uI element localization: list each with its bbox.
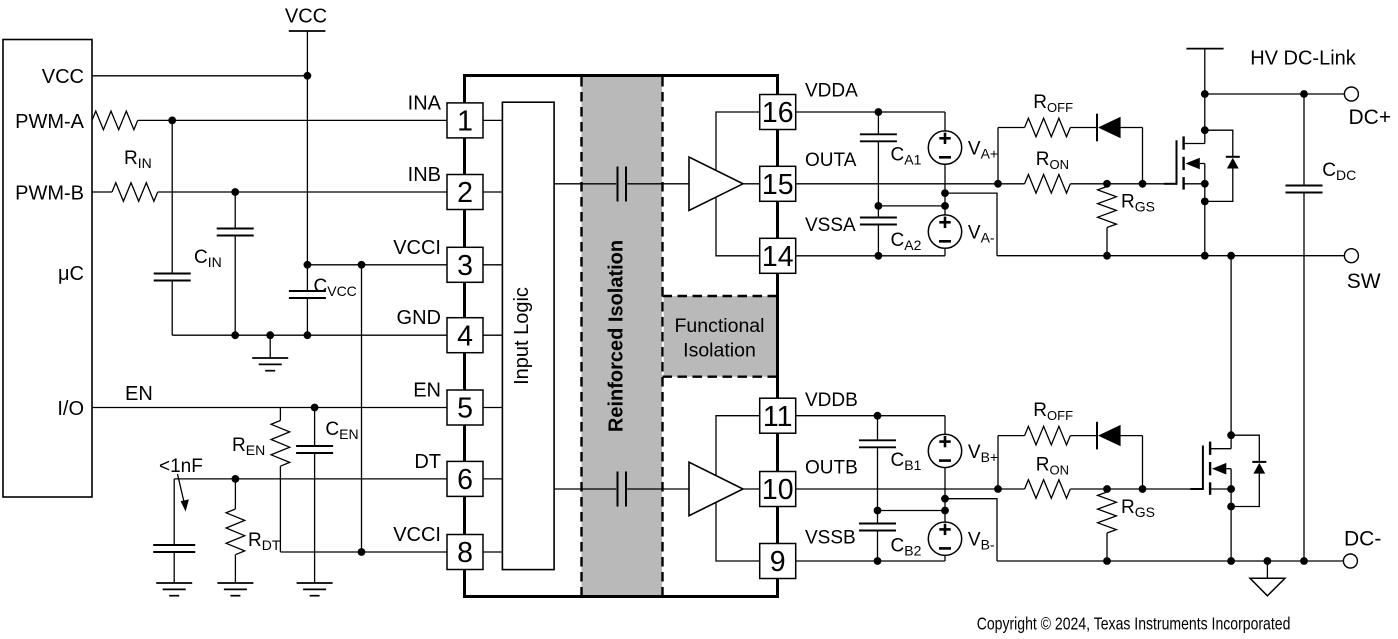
svg-text:CA1: CA1 (891, 145, 922, 168)
junction GND rail (231, 331, 239, 339)
junction VCCI pin8 rail (358, 548, 366, 556)
svg-text:OUTA: OUTA (805, 150, 857, 171)
wire VDDB stub to buffer B (716, 416, 760, 476)
svg-text:VB+: VB+ (968, 442, 998, 465)
diode D_OFF (B) (1096, 422, 1098, 450)
pin box 8 (447, 535, 483, 570)
arrow to DT cap (178, 474, 185, 502)
svg-text:RGS: RGS (1121, 497, 1155, 520)
junction VSSB at C_B2 (874, 557, 882, 565)
svg-text:15: 15 (762, 169, 794, 201)
resistor R_ON (B) (1025, 480, 1071, 499)
wire VDDA stub to buffer A (716, 112, 760, 170)
wire pin stub to input logic (483, 334, 502, 336)
svg-text:<1nF: <1nF (159, 456, 203, 477)
svg-text:Copyright © 2024, Texas Instru: Copyright © 2024, Texas Instruments Inco… (977, 613, 1291, 633)
source V_A- (928, 215, 961, 248)
svg-text:VDDB: VDDB (805, 390, 858, 411)
wire VCC from uC to VCC rail (92, 75, 307, 77)
capacitor C_B1 (877, 416, 879, 441)
wire midnode A to SW (945, 193, 997, 256)
svg-text:VA+: VA+ (968, 138, 998, 161)
terminal DC- (1343, 554, 1357, 568)
body diode B (1252, 461, 1266, 463)
svg-text:HV DC-Link: HV DC-Link (1250, 48, 1357, 70)
svg-text:CIN: CIN (194, 247, 222, 270)
junction Q_A body diode taps (1201, 126, 1209, 134)
svg-text:16: 16 (762, 97, 794, 129)
wire OUTA (796, 183, 1025, 185)
wire pin stub to input logic (483, 119, 502, 121)
wire VCCI vertical to pin 8 rail (361, 265, 363, 552)
wire pin stub to input logic (483, 191, 502, 193)
svg-text:Functional: Functional (675, 315, 765, 337)
wire DC+ rail (1205, 93, 1345, 95)
isolation capacitor A (617, 167, 619, 202)
wire VSSB stub to buffer B (716, 503, 760, 562)
pin box 5 (447, 390, 483, 425)
wire pin stub to input logic (483, 407, 502, 409)
wire VSSA stub to buffer A (716, 197, 760, 256)
ground (R_DT) (217, 582, 253, 584)
MOSFET Q_A drain (1184, 143, 1205, 145)
svg-text:VCC: VCC (285, 6, 327, 28)
pin box 6 (447, 461, 483, 496)
svg-text:EN: EN (125, 383, 153, 405)
wire pin stub to input logic (483, 551, 502, 553)
svg-text:VSSB: VSSB (805, 527, 856, 548)
wire R_OFF to diode A (1070, 127, 1096, 129)
svg-text:RGS: RGS (1121, 192, 1155, 215)
pin box 2 (447, 175, 483, 210)
junction Q_B body diode taps (1227, 431, 1235, 439)
input logic block (502, 102, 554, 569)
junction VCCI vertical (358, 261, 366, 269)
MOSFET Q_B body arrow (1212, 463, 1226, 475)
MOSFET Q_B source (1210, 488, 1231, 490)
wire EN from uC to pin 5 (92, 407, 447, 409)
svg-text:8: 8 (457, 537, 473, 569)
svg-text:Input Logic: Input Logic (511, 287, 533, 385)
svg-text:VCC: VCC (42, 66, 84, 88)
source V_B+ (928, 434, 961, 467)
svg-text:OUTB: OUTB (805, 457, 858, 478)
body diode A wires (1205, 130, 1233, 156)
svg-text:VSSA: VSSA (805, 215, 856, 236)
source V_A+ (928, 131, 961, 164)
capacitor C_A1 (877, 112, 879, 134)
svg-text:GND: GND (397, 307, 441, 329)
pin box 4 (447, 318, 483, 353)
svg-text:μC: μC (58, 263, 84, 285)
capacitor C_IN (PWM-B) (234, 192, 236, 229)
source V_B- (928, 522, 961, 555)
svg-text:CVCC: CVCC (314, 276, 357, 299)
wire DC- rail (997, 560, 1343, 562)
wire PWM-A filter cap lead (171, 120, 173, 273)
pin box 11 (760, 398, 796, 433)
svg-text:DC-: DC- (1344, 528, 1381, 551)
junction VCC rail (304, 72, 312, 80)
MOSFET Q_B gate plate (1190, 488, 1203, 490)
resistor R_GS (B) (1106, 489, 1108, 492)
wire VCCI to pin 3 (307, 264, 447, 266)
MOSFET Q_A channel (1182, 136, 1184, 149)
svg-text:5: 5 (457, 393, 473, 425)
terminal DC+ (1344, 87, 1358, 101)
svg-text:4: 4 (457, 320, 473, 352)
svg-text:PWM-B: PWM-B (15, 183, 84, 205)
junction DT node (232, 475, 240, 483)
MOSFET Q_A gate plate (1164, 183, 1177, 185)
isolation capacitor B (617, 472, 619, 507)
pin box 10 (760, 472, 796, 507)
wire V_A+ bottom vertical (944, 164, 946, 215)
pin box 9 (760, 544, 796, 579)
functional isolation box (664, 296, 776, 377)
capacitor C_IN (PWM-A) (154, 273, 191, 275)
wire midnode B to DC- (945, 499, 997, 561)
wire GND rail to pin 4 (172, 334, 447, 336)
junction SW rail (1103, 252, 1111, 260)
wire V_B+ bottom vertical (944, 467, 946, 522)
junction VSSA at C_A2 (875, 252, 883, 260)
driver buffer B (689, 462, 743, 516)
wire cap midpoint to sources B (878, 510, 946, 512)
wire diode B to gate (1121, 435, 1143, 437)
wire pin stub to input logic (483, 264, 502, 266)
wire V_B- to VSSB (944, 555, 946, 561)
junction C_B1/C_B2 midpoint (874, 507, 882, 515)
capacitor C_DC (1303, 94, 1305, 186)
svg-text:Reinforced Isolation: Reinforced Isolation (606, 240, 628, 432)
svg-text:ROFF: ROFF (1033, 400, 1073, 423)
ground (DT cap) (156, 582, 192, 584)
junction DC+ rail (1201, 90, 1209, 98)
junction VDDB at C_B1 (874, 412, 882, 420)
wire DT cap lead (173, 479, 175, 545)
junction PWM-B node (231, 188, 239, 196)
svg-text:VDDA: VDDA (805, 81, 858, 102)
svg-text:VCCI: VCCI (393, 524, 441, 546)
capacitor C_VCC (289, 290, 326, 292)
junction VCCI rail at VCC (304, 261, 312, 269)
wire PWM-B lead (92, 191, 112, 193)
wire VDDB to V_B+ (796, 415, 945, 417)
wire OUTB (796, 488, 1025, 490)
svg-text:PWM-A: PWM-A (15, 111, 85, 133)
wire R_OFF to diode B (1070, 435, 1096, 437)
svg-text:CB1: CB1 (891, 450, 922, 473)
diode D_OFF (A) (1096, 114, 1098, 142)
wire pin stub to input logic (483, 478, 502, 480)
pin box 1 (447, 103, 483, 138)
resistor R_OFF (B) (1025, 426, 1071, 445)
ground (C_EN) (297, 582, 333, 584)
ground (GND rail) (269, 335, 271, 358)
wire V_A- to VSSA (944, 248, 946, 256)
MOSFET Q_B channel (1209, 442, 1211, 455)
svg-text:1: 1 (457, 106, 473, 138)
capacitor C_EN (314, 408, 316, 447)
junction PWM-A node (168, 117, 176, 125)
svg-text:RIN: RIN (124, 148, 152, 171)
junction OUTB at R_OFF branch (994, 485, 1002, 493)
wire diode A to gate (1121, 127, 1143, 129)
svg-text:VCCI: VCCI (393, 237, 441, 259)
junction gate node A (1103, 180, 1111, 188)
svg-text:DC+: DC+ (1349, 106, 1392, 129)
wire gate node B (1070, 488, 1203, 490)
pin box 16 (760, 95, 796, 130)
svg-text:EN: EN (413, 380, 441, 402)
svg-text:REN: REN (232, 435, 265, 458)
wire PWM-A to pin INA (138, 119, 447, 121)
resistor R_IN (PWM-B) (112, 183, 158, 202)
svg-text:11: 11 (763, 401, 793, 433)
svg-text:3: 3 (457, 250, 473, 282)
VCC supply symbol (289, 30, 326, 32)
svg-text:INB: INB (408, 164, 441, 186)
junction C_A1/C_A2 midpoint (875, 202, 883, 210)
wire buffer B to OUTB pin (743, 488, 760, 490)
capacitor C_A2 (877, 206, 879, 218)
wire SW rail (997, 255, 1344, 257)
wire channel A across isolation (554, 183, 616, 185)
junction V_B+ midnode (941, 495, 949, 503)
wire buffer A to OUTA pin (743, 183, 760, 185)
MOSFET Q_B drain (1210, 448, 1231, 450)
resistor R_DT (234, 479, 236, 509)
junction VDDA at C_A1 (875, 108, 883, 116)
svg-text:VB-: VB- (968, 530, 995, 553)
capacitor C_B2 (877, 511, 879, 524)
resistor R_ON (A) (1025, 175, 1071, 194)
junction OUTA at R_OFF branch (994, 180, 1002, 188)
svg-text:9: 9 (770, 546, 786, 578)
wire VCC vertical rail down to C_VCC (306, 76, 308, 291)
pin box 15 (760, 166, 796, 201)
wire DT node (174, 478, 447, 480)
junction Q_B source (1227, 485, 1235, 493)
MOSFET Q_A body arrow (1185, 158, 1199, 170)
resistor R_GS (A) (1106, 184, 1108, 187)
reinforced isolation band (582, 77, 663, 595)
terminal SW (1344, 249, 1358, 263)
svg-text:I/O: I/O (57, 398, 84, 420)
svg-text:CB2: CB2 (891, 536, 922, 559)
svg-text:ROFF: ROFF (1033, 92, 1073, 115)
wire gate node A (1070, 183, 1176, 185)
svg-text:RON: RON (1036, 455, 1069, 478)
svg-text:INA: INA (408, 92, 442, 114)
svg-text:6: 6 (457, 464, 473, 496)
resistor R_EN (279, 408, 281, 421)
svg-text:10: 10 (762, 474, 794, 506)
junction gate node B (1103, 485, 1111, 493)
capacitor 1nF (DT) (153, 544, 195, 546)
MOSFET Q_A source (1184, 183, 1205, 185)
svg-text:SW: SW (1347, 270, 1381, 293)
svg-text:RON: RON (1036, 149, 1069, 172)
junction V_A+ midnode (941, 189, 949, 197)
svg-text:RDT: RDT (248, 530, 281, 553)
wire VCCI rail to pin 8 (280, 551, 447, 553)
svg-text:CA2: CA2 (891, 230, 922, 253)
svg-text:Isolation: Isolation (683, 340, 756, 362)
wire R_OFF branch A up (997, 128, 999, 184)
wire R_OFF branch B up (997, 436, 999, 489)
pin box 14 (760, 238, 796, 273)
body diode B wires (1231, 435, 1259, 461)
svg-text:CEN: CEN (325, 419, 358, 442)
wire PWM-B to pin INB (158, 191, 447, 193)
junction Q_A source (1201, 180, 1209, 188)
resistor R_OFF (A) (1025, 118, 1071, 137)
junction DC- rail (1103, 557, 1111, 565)
resistor R_IN (PWM-A) (92, 111, 138, 130)
wire cap midpoint to sources A (878, 205, 945, 207)
wire cap to GND rail (171, 281, 173, 336)
driver buffer A (689, 157, 743, 211)
HV DC-Link supply symbol (1186, 48, 1223, 50)
wire VDDA to V_A+ (796, 111, 945, 113)
svg-text:VA-: VA- (968, 222, 995, 245)
wire channel B across isolation (554, 488, 616, 490)
microcontroller block uC (3, 40, 92, 498)
svg-text:2: 2 (457, 177, 473, 209)
svg-text:CDC: CDC (1322, 160, 1356, 183)
IC outline (465, 76, 778, 597)
svg-text:DT: DT (414, 451, 441, 473)
ground (DC- rail) (1266, 561, 1268, 578)
pin box 3 (447, 247, 483, 282)
svg-text:14: 14 (762, 241, 794, 273)
body diode A (1226, 156, 1240, 158)
junction EN node (311, 404, 319, 412)
